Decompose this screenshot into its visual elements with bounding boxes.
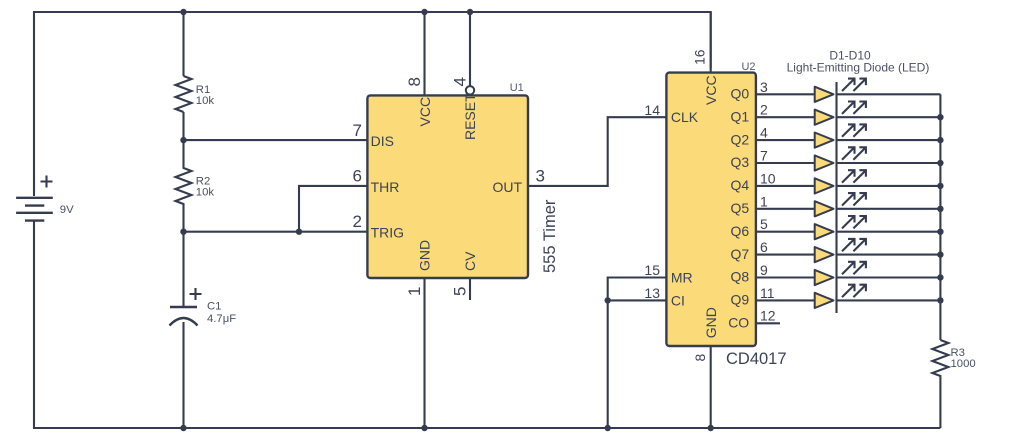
LED D6 emission arrows [842,193,866,205]
svg-text:Q4: Q4 [731,177,750,193]
capacitor C1 [170,288,202,326]
pin number 7 U2 [760,148,768,164]
label R1 10k [196,84,215,107]
LED D7 emission arrows [842,216,866,228]
pin name CO U2 [728,315,749,331]
resistor R2 [176,140,192,232]
label U2 [741,61,755,73]
wire OUT to CLK [528,117,666,186]
junction bus at D3 cathode [937,137,943,143]
wire LED D7 cathode to bus [837,231,941,233]
pin name Q3 U2 [731,154,750,170]
svg-text:VCC: VCC [703,75,719,105]
pin number 10 U2 [760,170,776,186]
wire LED D3 cathode to bus [837,139,941,141]
reset bubble U1 [466,86,474,94]
label D1-D10 [829,49,871,63]
wire U2 Q3 pin to LED D4 anode [756,162,815,164]
svg-text:C1: C1 [207,301,221,313]
pin name Q7 U2 [731,246,750,262]
wire U2 Q8 pin to LED D9 anode [756,276,815,278]
wire LED D2 cathode to bus [837,116,941,118]
svg-text:CV: CV [462,251,478,271]
wire U1 GND pin 1 [423,278,425,428]
wire LED D1 cathode to bus [837,93,941,95]
svg-text:4: 4 [450,77,469,86]
svg-text:GND: GND [703,307,719,338]
svg-text:1: 1 [405,287,424,296]
pin number 3 U2 [760,79,768,95]
svg-text:6: 6 [760,239,768,255]
node THR-TRIG junction [296,229,302,235]
pin name MR U2 [671,270,693,286]
pin number 5 U1 [450,287,469,296]
LED D6 [815,201,834,216]
node TRIG junction at R2 [180,229,186,235]
svg-text:15: 15 [644,262,660,278]
node DIS junction [180,137,186,143]
svg-text:CD4017: CD4017 [726,350,787,368]
wire top rail [34,12,711,196]
svg-text:DIS: DIS [371,133,394,149]
svg-text:Q6: Q6 [731,223,750,239]
svg-text:5: 5 [450,287,469,296]
LED D5 [815,178,834,193]
svg-text:CI: CI [671,292,685,308]
wire LED D8 cathode to bus [837,254,941,256]
LED D10 [815,293,834,308]
LED D2 [815,110,834,125]
LED D8 emission arrows [842,239,866,251]
junction bus at D7 cathode [937,229,943,235]
svg-text:RESET: RESET [462,93,478,140]
svg-text:VCC: VCC [417,97,433,127]
svg-text:CLK: CLK [671,109,699,125]
svg-text:9V: 9V [60,204,74,216]
svg-text:10k: 10k [196,187,215,199]
pin name VCC U2 [703,75,719,105]
pin number 4 U2 [760,125,768,141]
pin name VCC U1 [417,97,433,127]
svg-text:7: 7 [353,121,362,140]
svg-text:Q7: Q7 [731,246,750,262]
battery value 9V [60,204,74,216]
svg-text:OUT: OUT [492,179,522,195]
LED D7 [815,224,834,239]
pin number 2 U2 [760,102,768,118]
wire LED D10 cathode to bus [837,299,941,301]
svg-text:U1: U1 [510,82,524,94]
pin number 6 U1 [353,166,362,185]
label 555 Timer [541,199,559,273]
svg-text:14: 14 [644,102,660,118]
junction bus at D2 cathode [937,114,943,120]
pin number 14 U2 [644,102,660,118]
svg-text:TRIG: TRIG [371,225,404,241]
LED D9 emission arrows [842,262,866,274]
pin name Q8 U2 [731,269,750,285]
IC U2 CD4017 body [666,73,756,346]
pin name Q2 U2 [731,131,750,147]
label Light-Emitting Diode (LED) [787,61,930,75]
pin number 7 U1 [353,121,362,140]
svg-text:MR: MR [671,270,693,286]
pin number 1 U1 [405,287,424,296]
junction bus at D10 cathode [937,297,943,303]
LED D10 emission arrows [842,285,866,297]
svg-text:4.7μF: 4.7μF [207,313,236,325]
junction bottom rail at U1 GND [421,425,427,431]
wire U1 VCC pin 8 [423,12,425,95]
pin name Q6 U2 [731,223,750,239]
pin name DIS U1 [371,133,394,149]
label R3 1000 [951,347,976,370]
pin number 3 U1 [536,166,545,185]
pin number 11 U2 [760,285,775,301]
wire LED D5 cathode to bus [837,185,941,187]
svg-text:1000: 1000 [951,358,976,370]
svg-text:7: 7 [760,148,768,164]
wire LED D4 cathode to bus [837,162,941,164]
svg-text:THR: THR [371,179,400,195]
junction top rail at R1 [180,9,186,15]
pin name OUT U1 [492,179,522,195]
junction top rail at U1 RESET [467,9,473,15]
svg-text:4: 4 [760,125,768,141]
wire U2 Q6 pin to LED D7 anode [756,231,815,233]
wire U1 RESET pin 4 [469,12,471,86]
svg-text:9: 9 [760,262,768,278]
node CI junction [605,297,611,303]
pin name TRIG U1 [371,225,404,241]
label CD4017 [726,350,787,368]
junction bus at D9 cathode [937,274,943,280]
LED D4 emission arrows [842,147,866,159]
svg-text:Q5: Q5 [731,200,750,216]
junction bottom rail at C1 [180,425,186,431]
pin number 9 U2 [760,262,768,278]
junction bottom rail at MR/CI [605,425,611,431]
svg-text:Q8: Q8 [731,269,750,285]
svg-text:16: 16 [692,49,708,65]
pin name GND U2 [703,307,719,338]
junction bus at D8 cathode [937,251,943,257]
junction bottom rail at U2 GND [708,425,714,431]
junction bus at D6 cathode [937,206,943,212]
op-amp U1 555 timer body [367,95,528,278]
svg-text:5: 5 [760,216,768,232]
svg-text:Q0: Q0 [731,86,750,102]
wire U2 Q0 pin to LED D1 anode [756,93,815,95]
pin number 15 U2 [644,262,660,278]
svg-text:10: 10 [760,170,776,186]
pin number 8 U2 [692,354,708,362]
LED right bus [939,94,941,340]
wire U2 GND pin 8 [710,346,712,428]
wire C1 to bottom rail [182,322,184,428]
junction bus at D4 cathode [937,160,943,166]
pin name GND U1 [417,240,433,271]
svg-text:2: 2 [760,102,768,118]
LED D8 [815,247,834,262]
svg-text:11: 11 [760,285,775,301]
wire THR to TRIG [299,186,367,232]
wire U2 Q2 pin to LED D3 anode [756,139,815,141]
LED D1 [815,87,834,102]
LED cathode bar [835,82,837,313]
pin name THR U1 [371,179,400,195]
pin number 4 U1 [450,77,469,86]
svg-text:U2: U2 [741,61,755,73]
LED D2 emission arrows [842,102,866,114]
wire LED D9 cathode to bus [837,276,941,278]
svg-text:R1: R1 [196,84,210,96]
wire U2 Q5 pin to LED D6 anode [756,208,815,210]
svg-text:8: 8 [405,77,424,86]
junction bus at D5 cathode [937,183,943,189]
wire U2 Q7 pin to LED D8 anode [756,254,815,256]
pin number 12 U2 [760,308,776,324]
junction top rail at U1 VCC [421,9,427,15]
wire U2 Q9 pin to LED D10 anode [756,299,815,301]
LED D3 [815,133,834,148]
LED D3 emission arrows [842,124,866,136]
pin number 6 U2 [760,239,768,255]
wire U2 Q1 pin to LED D2 anode [756,116,815,118]
svg-text:10k: 10k [196,95,215,107]
LED D9 [815,270,834,285]
svg-text:R2: R2 [196,175,210,187]
svg-text:8: 8 [692,354,708,362]
pin name RESET U1 [462,93,478,140]
pin number 16 U2 [692,49,708,65]
svg-text:2: 2 [353,212,362,231]
pin name Q5 U2 [731,200,750,216]
svg-text:13: 13 [644,285,660,301]
pin number 13 U2 [644,285,660,301]
wire R1 to DIS node [182,112,184,140]
wire U2 Q4 pin to LED D5 anode [756,185,815,187]
svg-text:12: 12 [760,308,776,324]
pin number 1 U2 [760,193,768,209]
wire MR CI to bottom rail [608,278,667,429]
svg-text:Q3: Q3 [731,154,750,170]
pin name CLK U2 [671,109,699,125]
wire TRIG node to C1 [182,232,184,307]
resistor R1 [176,76,192,112]
svg-text:Q1: Q1 [731,108,750,124]
pin name CI U2 [671,292,685,308]
svg-text:Q9: Q9 [731,292,750,308]
pin name Q1 U2 [731,108,750,124]
svg-text:1: 1 [760,193,768,209]
pin name Q4 U2 [731,177,750,193]
battery BT1 [16,176,53,221]
wire U1 CV pin 5 stub [469,278,471,300]
wire U2 VCC pin 16 [710,12,712,73]
wire top rail to R1 [182,12,184,76]
label C1 4.7uF [207,301,236,325]
svg-text:Light-Emitting Diode (LED): Light-Emitting Diode (LED) [787,61,930,75]
svg-text:6: 6 [353,166,362,185]
wire TRIG [184,231,368,233]
pin number 5 U2 [760,216,768,232]
pin number 8 U1 [405,77,424,86]
wire LED D6 cathode to bus [837,208,941,210]
pin name Q0 U2 [731,86,750,102]
pin number 2 U1 [353,212,362,231]
svg-text:CO: CO [728,315,749,331]
svg-text:3: 3 [536,166,545,185]
resistor R3 [932,340,948,428]
label R2 10k [196,175,215,198]
svg-text:Q2: Q2 [731,131,750,147]
wire battery negative to bottom rail [34,221,940,428]
LED D1 emission arrows [842,79,866,91]
svg-text:3: 3 [760,79,768,95]
LED D4 [815,155,834,170]
pin name Q9 U2 [731,292,750,308]
svg-text:GND: GND [417,240,433,271]
wire CO stub pin 12 [756,322,780,324]
svg-text:555 Timer: 555 Timer [541,199,559,273]
wire DIS [184,139,368,141]
label U1 [510,82,524,94]
LED D5 emission arrows [842,170,866,182]
pin name CV U1 [462,251,478,271]
